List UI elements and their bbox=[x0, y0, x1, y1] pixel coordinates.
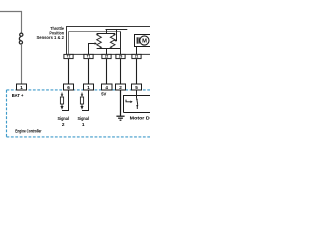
svg-text:5V: 5V bbox=[101, 91, 106, 96]
svg-text:BAT +: BAT + bbox=[12, 93, 24, 98]
motor brush block bbox=[137, 37, 138, 43]
switch contact bbox=[136, 105, 138, 107]
wire tap to top bar bbox=[106, 30, 108, 34]
node bottom bar bbox=[97, 48, 121, 50]
switch control arrow bbox=[126, 100, 131, 102]
svg-text:4: 4 bbox=[105, 85, 108, 90]
wire battery feed top-left bbox=[0, 12, 22, 34]
throttle connector pins bbox=[64, 54, 141, 58]
signal 2 input network bbox=[62, 90, 69, 111]
svg-text:2: 2 bbox=[62, 122, 65, 127]
switch blade bbox=[136, 99, 138, 101]
wire top node stub right bbox=[106, 29, 128, 31]
node top bar bbox=[97, 33, 116, 35]
svg-text:5: 5 bbox=[135, 85, 138, 90]
Engine Controller dashed boundary bbox=[7, 90, 151, 137]
wire 5V feed bbox=[106, 49, 108, 55]
svg-text:T1: T1 bbox=[87, 54, 91, 58]
svg-text:Signal: Signal bbox=[78, 116, 89, 121]
svg-text:1: 1 bbox=[20, 85, 23, 90]
controller connector pins bbox=[17, 84, 142, 90]
throttle assembly box bbox=[67, 27, 151, 55]
label Throttle Position Sensors 1 & 2 bbox=[37, 26, 65, 40]
svg-text:Signal: Signal bbox=[58, 116, 69, 121]
resistor TPS2 bbox=[110, 34, 115, 49]
svg-text:Engine Controller: Engine Controller bbox=[15, 129, 41, 135]
svg-text:29: 29 bbox=[119, 54, 123, 58]
svg-text:21: 21 bbox=[135, 54, 139, 58]
motor box bbox=[135, 35, 151, 47]
signal 1 input network bbox=[82, 90, 89, 111]
svg-text:6: 6 bbox=[67, 85, 70, 90]
ground bbox=[120, 90, 122, 116]
harness wires throttle to controller bbox=[69, 59, 137, 84]
wire pin5 into driver bbox=[136, 90, 138, 99]
motor circle M bbox=[140, 36, 149, 45]
wire breaker to BAT+ pin 1 bbox=[21, 44, 23, 84]
wiper sensor 2 bbox=[115, 30, 118, 41]
labels Signal 2 / Signal 1 bbox=[58, 116, 89, 127]
wiper sensor 1 bbox=[89, 44, 95, 55]
svg-text:1: 1 bbox=[87, 85, 90, 90]
svg-text:M: M bbox=[142, 39, 147, 45]
wire ground column inside throttle bbox=[120, 32, 122, 55]
svg-text:1: 1 bbox=[82, 122, 85, 127]
svg-text:T2: T2 bbox=[67, 54, 71, 58]
svg-text:2: 2 bbox=[119, 85, 122, 90]
wire signal-2 bus gray bbox=[69, 31, 121, 33]
wire motor to pin bbox=[136, 47, 138, 55]
motor driver box bbox=[124, 96, 151, 113]
svg-text:Motor Dri: Motor Dri bbox=[130, 116, 150, 121]
svg-text:Sensors 1 & 2: Sensors 1 & 2 bbox=[37, 35, 65, 40]
svg-text:22: 22 bbox=[105, 54, 109, 58]
resistor TPS1 bbox=[97, 34, 102, 49]
wire bus drop to pin T2 bbox=[68, 32, 70, 55]
circuit breaker bbox=[19, 33, 23, 44]
